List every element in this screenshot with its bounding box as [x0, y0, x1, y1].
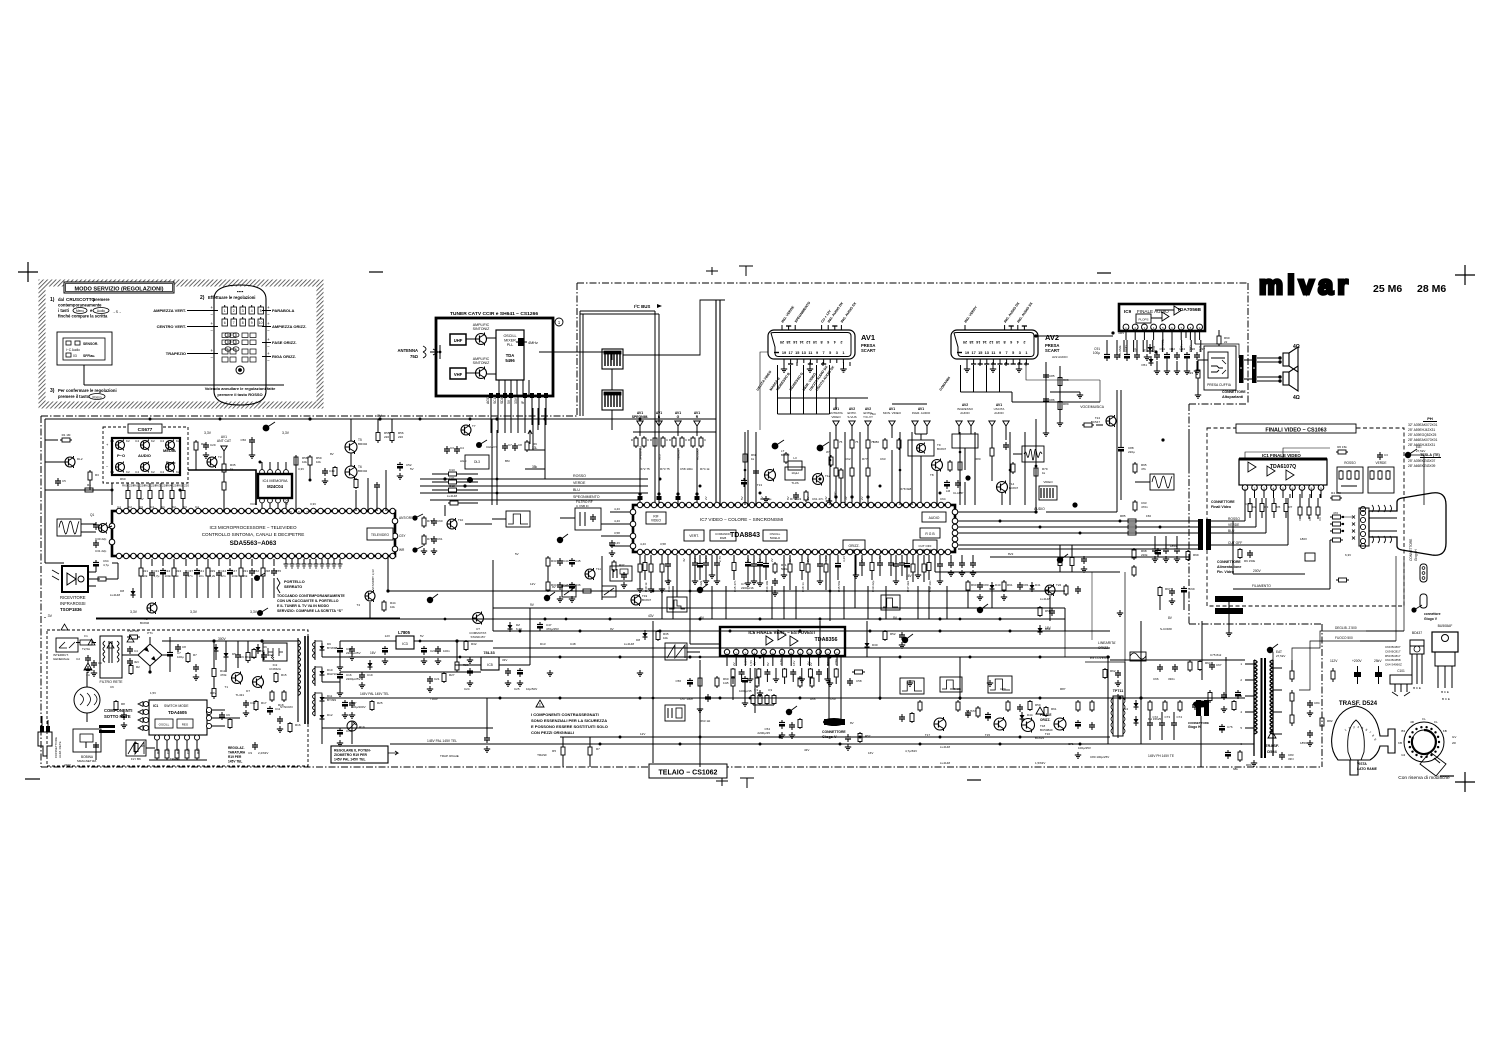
svg-text:R7: R7	[596, 747, 600, 751]
sawtooth wavebox in PSU	[126, 740, 146, 756]
registration mark bottom x720	[721, 777, 723, 786]
R32 resistor below rail	[465, 640, 467, 642]
vertical stubs from IC3 top right pins	[355, 490, 357, 511]
flyback driver waveform box 3	[988, 676, 1012, 693]
svg-text:R G B: R G B	[925, 532, 935, 536]
svg-text:mivar: mivar	[1259, 270, 1352, 300]
svg-text:33V: 33V	[514, 397, 518, 404]
transistor T6 BR302	[345, 466, 357, 478]
svg-text:3: 3	[836, 351, 838, 355]
svg-text:C94: C94	[1180, 347, 1186, 351]
12V D16 diode	[369, 660, 371, 663]
registration mark bottom right dash	[1440, 775, 1454, 777]
svg-text:ANTENNA: ANTENNA	[398, 348, 418, 353]
svg-text:R2: R2	[136, 665, 140, 669]
blob on standby wire	[544, 595, 550, 601]
svg-text:4MHz: 4MHz	[528, 341, 538, 345]
cap C9 2,2/63V	[254, 742, 256, 745]
svg-text:R9: R9	[533, 442, 537, 446]
svg-text:D10: D10	[449, 468, 455, 472]
svg-text:LATO RAME: LATO RAME	[1357, 767, 1378, 771]
svg-text:CON PEZZI ORIGINALI: CON PEZZI ORIGINALI	[531, 730, 574, 735]
svg-text:R80: R80	[975, 457, 981, 461]
CS677 buttons/transistors	[116, 441, 125, 450]
svg-text:C76: C76	[1227, 725, 1233, 729]
IC1 internal amplifier triangles	[1248, 462, 1256, 472]
svg-text:8V: 8V	[850, 721, 854, 725]
LL4148 diodes left cluster	[132, 588, 134, 591]
svg-text:9: 9	[251, 321, 253, 325]
trap circuit 500k	[774, 562, 776, 564]
svg-text:C10: C10	[268, 653, 274, 657]
svg-text:LL4148: LL4148	[624, 642, 634, 646]
svg-text:R19 PER: R19 PER	[228, 755, 242, 759]
svg-text:FLY BK: FLY BK	[131, 757, 141, 761]
svg-text:78L33: 78L33	[483, 650, 495, 655]
svg-text:C64: C64	[940, 497, 946, 501]
svg-text:3: 3	[1019, 351, 1021, 355]
svg-text:5: 5	[1012, 351, 1014, 355]
component cluster below IC7 pins 52-58	[694, 555, 696, 560]
svg-text:28" A66EKZ43X09: 28" A66EKZ43X09	[1408, 464, 1436, 468]
svg-text:R29: R29	[210, 569, 216, 573]
svg-text:D11: D11	[449, 476, 455, 480]
svg-text:C4: C4	[135, 439, 139, 443]
chassis boundary right lower x1322	[1321, 624, 1323, 767]
cluster right of IC3 x420-490	[423, 516, 425, 518]
svg-text:CONNETTORE: CONNETTORE	[1211, 500, 1235, 504]
resistor cluster below IC7 mid2	[789, 555, 791, 562]
svg-text:Alimentazione: Alimentazione	[1217, 565, 1241, 569]
svg-text:100n: 100n	[165, 574, 172, 578]
component cluster below IC7 left	[639, 555, 641, 562]
svg-text:AGC: AGC	[460, 459, 467, 463]
svg-text:R61: R61	[133, 484, 139, 488]
svg-text:PRESA CUFFIA: PRESA CUFFIA	[1207, 383, 1232, 387]
svg-text:S-CORR: S-CORR	[1160, 627, 1173, 631]
IC3 left side bus wires	[45, 489, 112, 491]
IC7 internal sub-box AUDIO	[922, 512, 946, 522]
audio mute diodes	[1150, 356, 1152, 359]
switch mode controller IC1 TDA4605 box	[149, 700, 207, 735]
svg-text:3,3V: 3,3V	[310, 502, 316, 506]
svg-text:28" A66EAK070X01: 28" A66EAK070X01	[1408, 438, 1438, 442]
SCART AV2 diagonal signal labels bottom	[966, 359, 968, 363]
IC4 pins top	[260, 470, 265, 475]
cut off wire into board	[1211, 544, 1288, 546]
AUDIO wire to volume node	[958, 511, 1036, 513]
svg-text:VCC: VCC	[285, 498, 289, 505]
hatched video ident box	[1039, 486, 1057, 500]
svg-text:ALIM. RETE: ALIM. RETE	[58, 741, 62, 758]
svg-text:CRUSCOTTO: CRUSCOTTO	[66, 297, 95, 302]
svg-text:C4: C4	[110, 470, 114, 474]
flyback core lines	[1261, 658, 1263, 758]
mains filter cap	[87, 655, 89, 658]
svg-text:Effettuare le regolazioni: Effettuare le regolazioni	[208, 295, 255, 300]
vertical riser x1065 to flyback	[1064, 608, 1066, 631]
svg-text:3,9Ω 5W: 3,9Ω 5W	[127, 629, 139, 633]
svg-text:AMPIEZZA ORIZZ.: AMPIEZZA ORIZZ.	[272, 324, 307, 329]
svg-text:3V: 3V	[48, 614, 53, 618]
svg-text:Giogo H: Giogo H	[1188, 725, 1201, 729]
svg-text:FL: FL	[1434, 720, 1438, 724]
CRT G2 G3 wires	[1329, 540, 1331, 589]
svg-text:C49: C49	[329, 469, 335, 473]
SCART AV1 diagonal signal labels top	[781, 325, 783, 330]
svg-text:IC3: IC3	[402, 642, 408, 646]
svg-text:C2: C2	[128, 505, 132, 509]
remote bottom round button	[236, 366, 244, 374]
feedback resistor network right of IC6	[799, 676, 801, 678]
svg-text:C50: C50	[240, 438, 246, 442]
svg-text:1k: 1k	[1042, 471, 1046, 475]
svg-text:SCART: SCART	[861, 348, 876, 353]
svg-text:premere il tasto: premere il tasto	[58, 394, 90, 399]
svg-text:R91: R91	[1007, 583, 1013, 587]
svg-text:▪▪▪▪: ▪▪▪▪	[237, 289, 244, 294]
svg-text:4,43: 4,43	[614, 507, 620, 511]
svg-text:1,5V: 1,5V	[150, 691, 156, 695]
svg-text:12: 12	[806, 340, 810, 344]
svg-text:9: 9	[816, 351, 818, 355]
svg-text:R32: R32	[471, 642, 477, 646]
svg-text:28 M6: 28 M6	[1417, 283, 1446, 295]
svg-text:1: 1	[842, 351, 844, 355]
svg-text:C62: C62	[845, 457, 851, 461]
svg-text:3,7V: 3,7V	[779, 659, 783, 665]
degauss posistor BOBINA SMAGNETIZZ	[73, 729, 101, 752]
ground symbols secondary	[339, 664, 341, 667]
svg-text:43V: 43V	[648, 614, 655, 618]
svg-text:6: 6	[827, 340, 829, 344]
quartz crystal circuit at IC3 left	[57, 519, 81, 536]
driver area additions	[859, 732, 861, 734]
svg-text:AMPIEZZA VERT.: AMPIEZZA VERT.	[153, 308, 186, 313]
svg-text:C67: C67	[1216, 663, 1222, 667]
degauss connector bars	[99, 725, 115, 728]
svg-text:connettore: connettore	[1424, 612, 1441, 616]
svg-text:TRAP: TRAP	[430, 697, 438, 701]
front panel module CS677 dashed frame	[103, 427, 188, 483]
speaker connector bars CONNETTORE Altoparlanti	[1239, 355, 1244, 383]
svg-text:premere il tasto ROSSO: premere il tasto ROSSO	[217, 392, 262, 397]
wire SAW filters to video bus	[611, 369, 613, 390]
svg-text:T16: T16	[1045, 732, 1051, 736]
svg-text:BM: BM	[505, 459, 510, 463]
sandcastle waveform box	[667, 597, 687, 612]
svg-text:8: 8	[821, 340, 823, 344]
test point blob arrows	[427, 597, 433, 603]
svg-text:BR302: BR302	[358, 469, 368, 473]
svg-text:100n: 100n	[232, 574, 239, 578]
svg-text:4V: 4V	[824, 496, 828, 500]
svg-text:22: 22	[1224, 340, 1228, 344]
svg-text:2: 2	[233, 309, 235, 313]
svg-text:6: 6	[1010, 340, 1012, 344]
flyback EAT output	[1270, 652, 1273, 660]
svg-text:C57 100n: C57 100n	[680, 697, 693, 701]
svg-text:OSCILL: OSCILL	[503, 334, 516, 338]
svg-text:AV2 AUDIO: AV2 AUDIO	[1052, 355, 1068, 359]
svg-text:T1: T1	[224, 685, 228, 689]
5V distribution	[455, 639, 458, 642]
IC4 pins bottom	[260, 498, 265, 503]
svg-text:2V: 2V	[806, 496, 810, 500]
voltage adjust pot R19	[347, 721, 357, 731]
svg-text:10k: 10k	[390, 605, 395, 609]
yoke V resistor group	[752, 694, 754, 696]
svg-text:TDA4605: TDA4605	[168, 710, 187, 715]
svg-text:112V: 112V	[1330, 659, 1338, 663]
IC6 internal amplifier triangles	[778, 630, 786, 640]
svg-text:1): 1)	[50, 297, 55, 303]
svg-text:25" A39EKZ43X07: 25" A39EKZ43X07	[1408, 459, 1436, 463]
svg-text:2: 2	[1023, 340, 1025, 344]
standby control wire y591	[388, 590, 1065, 592]
svg-text:25" A59EHJ42X31: 25" A59EHJ42X31	[1408, 428, 1435, 432]
svg-text:C4: C4	[160, 439, 164, 443]
svg-text:ANT CAT: ANT CAT	[217, 439, 231, 443]
svg-text:+: +	[210, 348, 213, 353]
svg-text:150: 150	[1146, 514, 1151, 518]
svg-text:TRASF: TRASF	[170, 757, 180, 761]
svg-text:LL4148: LL4148	[940, 761, 950, 765]
svg-text:R3: R3	[1265, 505, 1269, 509]
portello serrato note	[277, 578, 280, 593]
wire kbd line left	[45, 418, 112, 420]
svg-text:10µH: 10µH	[791, 471, 798, 475]
svg-text:C44: C44	[221, 569, 227, 573]
svg-text:TPT11: TPT11	[1113, 689, 1124, 693]
SCART AV1 pin row bottom (odd pins)	[774, 352, 779, 354]
FINALI VIDEO internal fill	[1289, 494, 1291, 498]
audio output line from IC7	[958, 511, 1036, 513]
CRT socket pin circles	[1360, 510, 1365, 515]
svg-text:470k: 470k	[220, 673, 227, 677]
svg-text:R31: R31	[243, 569, 249, 573]
svg-text:Q1: Q1	[90, 513, 94, 517]
svg-text:C4: C4	[460, 446, 464, 450]
IC1 pins	[143, 701, 148, 706]
svg-text:PLOPS: PLOPS	[1138, 318, 1148, 322]
svg-text:8V: 8V	[377, 414, 382, 418]
RGB inline resistors	[1125, 520, 1128, 522]
svg-text:10µ/50V: 10µ/50V	[526, 687, 537, 691]
rail y619 continuous	[96, 618, 1065, 620]
ground symbols row below IC3 mid pins	[285, 559, 287, 564]
chassis boundary top edge left section	[41, 415, 577, 417]
IC7 right pins	[952, 509, 958, 515]
bottom-right long verticals	[1140, 621, 1142, 744]
svg-text:B3: B3	[1401, 729, 1405, 733]
svg-text:R60: R60	[122, 484, 128, 488]
flyback secondary winding	[1272, 660, 1274, 756]
svg-text:10: 10	[259, 321, 263, 325]
svg-text:IC1 FINALE VIDEO: IC1 FINALE VIDEO	[1262, 453, 1301, 458]
svg-text:220: 220	[398, 435, 403, 439]
SCART AV2 ground stubs	[966, 362, 968, 366]
svg-text:C80: C80	[983, 583, 989, 587]
svg-text:3,3V: 3,3V	[250, 610, 258, 614]
svg-text:12V: 12V	[530, 582, 535, 586]
IC7 internal sub-box RIF VIDEO	[646, 512, 666, 524]
optocoupler IC2	[263, 643, 287, 661]
svg-text:C44: C44	[563, 559, 569, 563]
svg-text:R78 6k8: R78 6k8	[900, 487, 912, 491]
svg-text:4,7µ: 4,7µ	[154, 574, 160, 578]
svg-text:C4: C4	[134, 649, 138, 653]
svg-text:VERDE: VERDE	[1376, 461, 1387, 465]
AV2 wire bus right	[1026, 366, 1100, 380]
svg-text:R61: R61	[1051, 707, 1057, 711]
svg-text:8V: 8V	[330, 452, 334, 456]
svg-text:R63: R63	[155, 484, 161, 488]
svg-text:R23: R23	[196, 748, 200, 754]
resistor pair right of T5	[377, 430, 379, 433]
internal wires FINALI	[1232, 521, 1234, 574]
svg-text:2,7V: 2,7V	[718, 556, 722, 562]
svg-text:220: 220	[184, 484, 189, 488]
headphone series resistor R90	[1218, 334, 1220, 336]
IR receiver RICEVITORE INFRAROSSI TSOP1836	[62, 566, 88, 592]
svg-text:R5: R5	[552, 749, 556, 753]
svg-text:18: 18	[786, 340, 790, 344]
svg-text:Con riserva di modifiche: Con riserva di modifiche	[1398, 775, 1450, 781]
svg-text:S-VHS: S-VHS	[847, 415, 856, 419]
registration mark bottom-left dash	[25, 778, 40, 780]
svg-text:i tasti: i tasti	[58, 308, 69, 313]
svg-text:12V: 12V	[640, 732, 645, 736]
CRT inner electron gun lines	[1369, 517, 1397, 519]
wires from audio area down the right	[1188, 430, 1190, 470]
svg-text:KB: KB	[1398, 741, 1402, 745]
svg-text:C56: C56	[675, 679, 681, 683]
supply arrow blob	[263, 425, 270, 432]
svg-text:12: 12	[989, 340, 993, 344]
svg-text:230V: 230V	[64, 763, 71, 767]
relay box symbols on standby wire	[562, 586, 576, 597]
svg-text:22n: 22n	[221, 574, 226, 578]
svg-text:AV2: AV2	[1045, 333, 1059, 342]
svg-text:220: 220	[384, 435, 389, 439]
yoke connector H bars	[1196, 700, 1201, 716]
svg-text:C19: C19	[367, 673, 373, 677]
svg-text:0,6V: 0,6V	[210, 691, 216, 695]
svg-text:R1 1M: R1 1M	[62, 433, 71, 437]
IC6 pin row	[724, 649, 729, 654]
svg-text:C21: C21	[434, 677, 440, 681]
svg-text:18V: 18V	[1118, 331, 1125, 335]
CS677 title box	[128, 424, 162, 433]
svg-text:RIGA ORIZZ.: RIGA ORIZZ.	[272, 354, 296, 359]
svg-text:contemporaneamente: contemporaneamente	[58, 303, 102, 308]
svg-text:D51: D51	[1141, 363, 1147, 367]
svg-text:6: 6	[224, 321, 226, 325]
svg-text:1k: 1k	[176, 574, 180, 578]
horizontal frequency components row2	[1149, 700, 1151, 702]
svg-text:R22: R22	[176, 748, 180, 754]
svg-text:R3: R3	[95, 473, 99, 477]
svg-text:5V: 5V	[515, 552, 519, 556]
svg-text:Piezo: Piezo	[166, 461, 176, 465]
svg-text:CUT OFF: CUT OFF	[919, 544, 932, 548]
svg-text:17: 17	[788, 351, 792, 355]
parts left of FINALI box	[1159, 586, 1161, 588]
svg-text:D24: D24	[1122, 707, 1128, 711]
resistor column x1030-1045	[1035, 466, 1037, 468]
svg-text:C5: C5	[62, 479, 66, 483]
IC1 pin row	[1242, 485, 1248, 491]
svg-text:R7: R7	[1289, 505, 1293, 509]
svg-text:P−O: P−O	[117, 453, 125, 458]
svg-text:R2: R2	[1253, 505, 1257, 509]
svg-text:1: 1	[1025, 351, 1027, 355]
svg-text:25" A39EGQ52X25: 25" A39EGQ52X25	[1408, 433, 1436, 437]
line filter FILTRO RETE	[100, 636, 122, 678]
svg-text:2V: 2V	[809, 662, 813, 666]
registration mark top center	[739, 265, 753, 267]
svg-text:C81: C81	[1023, 583, 1029, 587]
svg-text:33V: 33V	[502, 658, 507, 662]
RGB output wires to video connector	[958, 520, 1198, 522]
remote control outline	[214, 285, 266, 405]
triangle markers PSU	[107, 642, 114, 648]
svg-text:145V PH 145V TE: 145V PH 145V TE	[1148, 754, 1174, 758]
8V2 blob	[1072, 502, 1077, 507]
svg-text:CUT OFF: CUT OFF	[1228, 541, 1242, 545]
svg-text:C34: C34	[165, 569, 171, 573]
svg-text:20: 20	[780, 340, 784, 344]
svg-text:−: −	[267, 328, 270, 333]
vertical yoke connector CONNETTORE Giogo V	[824, 719, 833, 725]
svg-text:T11: T11	[596, 567, 601, 571]
svg-text:25kV: 25kV	[1374, 659, 1382, 663]
svg-text:SONO ESSENZIALI PER LA SICUREZ: SONO ESSENZIALI PER LA SICUREZZA	[531, 718, 607, 723]
CRT anode connection	[1408, 455, 1424, 505]
svg-text:SPEGNIMENTO: SPEGNIMENTO	[573, 495, 600, 499]
svg-text:180V: 180V	[1300, 537, 1307, 541]
svg-text:16: 16	[793, 340, 797, 344]
svg-text:ZIOMETRO R19 PER: ZIOMETRO R19 PER	[334, 753, 368, 757]
svg-text:ORIZZ.: ORIZZ.	[1040, 718, 1051, 722]
svg-text:B C E: B C E	[1413, 686, 1421, 690]
svg-text:C58: C58	[856, 679, 862, 683]
rail 16V horizontal	[493, 607, 1065, 609]
scart to demod routed wires	[760, 352, 768, 430]
svg-text:−: −	[267, 344, 270, 349]
left rail wires x45	[44, 419, 46, 490]
main filter capacitor C7	[169, 650, 171, 653]
svg-text:7: 7	[233, 321, 235, 325]
svg-text:4,7µ/63V: 4,7µ/63V	[905, 749, 917, 753]
svg-text:R87: R87	[1060, 687, 1066, 691]
svg-text:5V: 5V	[507, 399, 511, 404]
svg-text:T7: T7	[472, 424, 476, 428]
vertical riser x855	[854, 555, 856, 608]
svg-text:R65: R65	[177, 484, 183, 488]
CRT socket body	[1359, 508, 1369, 546]
audio out buffer cluster	[991, 446, 993, 448]
tuner pin pads	[489, 393, 493, 398]
svg-text:K2: K2	[176, 470, 180, 474]
svg-text:5: 5	[829, 351, 831, 355]
extra components below IC3	[251, 559, 253, 566]
svg-text:16V: 16V	[370, 651, 377, 655]
svg-text:43V: 43V	[804, 748, 809, 752]
transformer tap wires	[290, 640, 298, 642]
diode pair near IC6 inputs	[644, 630, 646, 633]
